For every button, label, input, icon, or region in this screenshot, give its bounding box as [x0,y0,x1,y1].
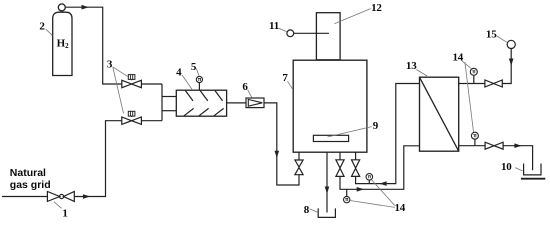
wire: valve 3a to manifold [141,83,162,85]
svg-text:6: 6 [242,81,248,93]
leader to sensor 14d [350,201,395,208]
svg-text:13: 13 [406,60,417,72]
restrictor 6 [246,98,264,108]
chimney 12 [316,13,340,60]
container 10 [524,164,541,175]
heat exchanger 13 [420,77,459,151]
leader to valve 3b [113,68,124,114]
wire: boiler drain down [326,153,328,213]
valve B below boiler [336,153,344,177]
leader to exchanger [416,70,427,77]
wire: H2 outlet to valve 3a [66,7,122,84]
container 8 [318,208,335,217]
wire: valve C to exchanger top-left port [356,84,420,184]
sensor 14a [470,68,477,83]
svg-text:14: 14 [452,52,463,64]
leader to container 10 [515,168,522,171]
arrow down from 15 [509,59,514,66]
svg-text:gas grid: gas grid [10,179,51,191]
svg-text:11: 11 [269,20,279,32]
valve on top-right line [485,80,502,87]
wire: exchanger right-top to valve [459,83,485,85]
wire: exchanger right-bottom to valve [459,145,485,147]
svg-text:Natural: Natural [10,167,46,179]
wire: valve 3b to manifold [141,120,162,122]
leader to sensor 14c [372,180,395,206]
svg-text:4: 4 [176,67,182,79]
leader to restrictor 6 [248,90,252,98]
wire: manifold stub lower to mixer [162,110,176,112]
svg-text:10: 10 [501,161,512,173]
H2 cylinder (2) [53,4,72,76]
svg-text:2: 2 [39,21,45,33]
container 10 base [521,178,545,180]
svg-text:3: 3 [107,59,113,71]
leader to chimney [334,9,370,24]
mixer 4 [176,90,226,116]
leader to container 8 [310,209,318,213]
leader to mixer [182,75,193,90]
leader to circle 15 [496,36,507,43]
arrow after valve 1 [83,194,90,199]
wire: valve up to inlet 15 [502,49,511,84]
wire: manifold stub upper to mixer [162,96,176,98]
valve C below boiler [352,153,360,177]
svg-text:7: 7 [282,72,288,84]
arrow down on drain [325,187,330,194]
sensor 14d [344,189,350,203]
arrow down on feed line [275,151,280,158]
wire: mixer to restrictor 6 [227,102,246,104]
wire: valve B to exchanger mid-left port [340,146,420,190]
leader to sensor 14a [462,61,471,69]
burner 9 inside boiler [313,135,348,141]
wire: valve 1 to riser [74,121,122,197]
svg-text:8: 8 [304,204,310,216]
sensor 14b [471,132,478,146]
svg-text:15: 15 [486,28,497,40]
sensor 5 [196,76,202,90]
valve on bottom-right line [485,142,503,149]
arrow right on supply line [357,187,364,192]
svg-text:12: 12 [371,2,382,14]
wire: manifold vertical [161,84,163,121]
svg-text:1: 1 [62,207,67,219]
leader to sensor 11 [279,28,287,32]
sensor 14c [366,174,373,184]
leader to burner [328,127,372,137]
boiler 7 [293,60,367,152]
arrow on H2 line [82,5,89,10]
leader to valve 1 [54,202,61,209]
valve A below boiler left [295,153,303,175]
arrow left on return line [379,181,386,186]
svg-text:5: 5 [191,61,197,73]
wire: restrictor 6 down to burner feed [264,103,299,185]
leader to boiler [287,81,292,89]
arrow right to container [514,143,521,148]
valve 1 [47,192,74,202]
sensor 11 probe [287,30,329,37]
leader to valve 3a [113,67,128,77]
circle 15 [507,40,515,48]
valve 3a [122,75,142,88]
wire: natural gas inlet [2,196,48,198]
wire: valve to container 10 [503,146,532,171]
leader to sensor 14b [465,62,474,132]
svg-text:14: 14 [394,202,405,214]
svg-text:9: 9 [373,120,379,132]
leader to sensor 5 [196,68,199,76]
valve 3b [122,111,142,124]
leader to cylinder [46,29,53,35]
